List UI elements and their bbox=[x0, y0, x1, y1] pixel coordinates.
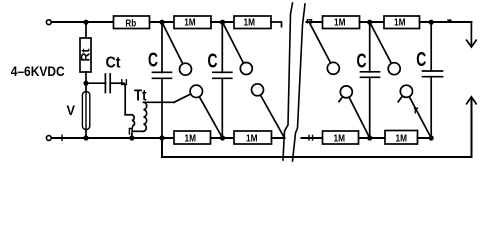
resistor 1M top-2 bbox=[234, 16, 271, 29]
resistor 1M top-4 bbox=[384, 16, 420, 29]
spark gap upper ball U4 bbox=[370, 22, 392, 63]
svg-text:C: C bbox=[416, 48, 426, 71]
svg-text:C: C bbox=[208, 50, 218, 73]
wire bottom rail after break with tick marks bbox=[302, 137, 323, 139]
spark gap upper ball U1 bbox=[162, 22, 183, 64]
svg-text:Rb: Rb bbox=[125, 18, 136, 29]
resistor Rb bbox=[114, 16, 150, 29]
wire Rb to node 1 bbox=[150, 21, 175, 23]
node top 4 (x=431.2) bbox=[429, 20, 434, 25]
node bottom 1 (x=162) bbox=[159, 135, 164, 140]
node mid (x=86,y=83.2) bbox=[83, 81, 88, 86]
svg-text:1M: 1M bbox=[394, 18, 406, 29]
svg-text:1M: 1M bbox=[334, 18, 346, 29]
svg-text:Rt: Rt bbox=[81, 48, 93, 61]
node bottom V (x=86) bbox=[83, 135, 88, 140]
node bottom 4 (x=431.2) bbox=[429, 135, 434, 140]
spark gap lower ball L4 bbox=[400, 85, 412, 97]
spark gap lower ball L2 bbox=[252, 84, 264, 96]
node top 2 (x=222.5) bbox=[220, 20, 225, 25]
node transformer (x=131.8) bbox=[129, 135, 134, 140]
tick mark on bottom wire bbox=[61, 135, 63, 140]
resistor 1M bottom-3 bbox=[323, 131, 359, 144]
resistor 1M bottom-4 bbox=[385, 131, 418, 145]
svg-text:1M: 1M bbox=[184, 18, 196, 29]
svg-text:1M: 1M bbox=[334, 133, 346, 144]
output return line bbox=[162, 98, 472, 157]
spark gap upper ball U2 bbox=[223, 22, 244, 63]
transformer Tt secondary bbox=[144, 102, 147, 131]
transformer Tt primary bbox=[124, 84, 126, 114]
wire top rail after break with bump mark bbox=[307, 21, 323, 23]
minus polarity mark bbox=[447, 19, 451, 21]
resistor 1M top-1 bbox=[174, 16, 211, 29]
wire to node bottom 3 bbox=[359, 137, 386, 139]
break line right bbox=[293, 4, 306, 161]
node top A (x=86) bbox=[83, 20, 88, 25]
svg-text:V: V bbox=[67, 102, 76, 118]
resistor 1M bottom-1 bbox=[174, 131, 211, 144]
resistor 1M top-3 bbox=[323, 16, 360, 29]
trigger wire to gap bbox=[144, 101, 174, 103]
capacitor C1 column bbox=[161, 22, 163, 72]
transformer Tt primary bottom loop bbox=[129, 126, 133, 134]
wire to node top 4 and right bbox=[420, 21, 472, 23]
svg-text:1M: 1M bbox=[246, 133, 258, 144]
capacitor C4 column bbox=[430, 22, 432, 71]
wire top rail stub with hook before break bbox=[271, 22, 282, 27]
node top 1 (x=162) bbox=[159, 20, 164, 25]
spark gap lower ball L1 (trigger) bbox=[190, 85, 202, 97]
svg-text:1M: 1M bbox=[244, 18, 256, 29]
resistor Rt bbox=[85, 22, 87, 38]
svg-text:4–6KVDC: 4–6KVDC bbox=[11, 63, 65, 79]
voltmeter tube V bbox=[85, 83, 87, 91]
svg-text:Ct: Ct bbox=[106, 55, 122, 72]
capacitor Ct bbox=[86, 82, 105, 84]
svg-text:C: C bbox=[357, 50, 367, 73]
output arrow up (positive terminal) bbox=[467, 97, 477, 104]
break line left bbox=[283, 3, 293, 160]
wire to node bottom 4 bbox=[418, 137, 432, 139]
wire bottom rail to break bbox=[272, 137, 285, 139]
wire top rail: terminal to Rb bbox=[52, 21, 114, 23]
spark gap lower ball L3 bbox=[340, 86, 352, 98]
capacitor C2 column bbox=[221, 22, 223, 72]
svg-text:1M: 1M bbox=[396, 133, 408, 144]
wire bottom rail left bbox=[52, 137, 174, 139]
spark gap upper ball U3 bbox=[310, 23, 331, 63]
input terminal top bbox=[46, 20, 51, 25]
svg-text:1M: 1M bbox=[185, 133, 197, 144]
wire between top 1M boxes bbox=[211, 21, 234, 23]
connector cup mark bbox=[122, 80, 127, 85]
output arrow down (negative terminal) bbox=[470, 22, 472, 46]
capacitor C3 column bbox=[369, 22, 371, 72]
node bottom 3 (x=369.7) bbox=[367, 135, 372, 140]
node top 3 (x=369.7) bbox=[367, 20, 372, 25]
input terminal bottom bbox=[46, 136, 51, 141]
wire between bottom boxes bbox=[211, 137, 235, 139]
resistor 1M bottom-2 bbox=[234, 131, 272, 144]
wire to node top 3 bbox=[360, 21, 385, 23]
tick mark on L4 electrode bbox=[414, 108, 418, 113]
svg-text:C: C bbox=[148, 48, 158, 71]
node bottom 2 (x=222.5) bbox=[220, 135, 225, 140]
